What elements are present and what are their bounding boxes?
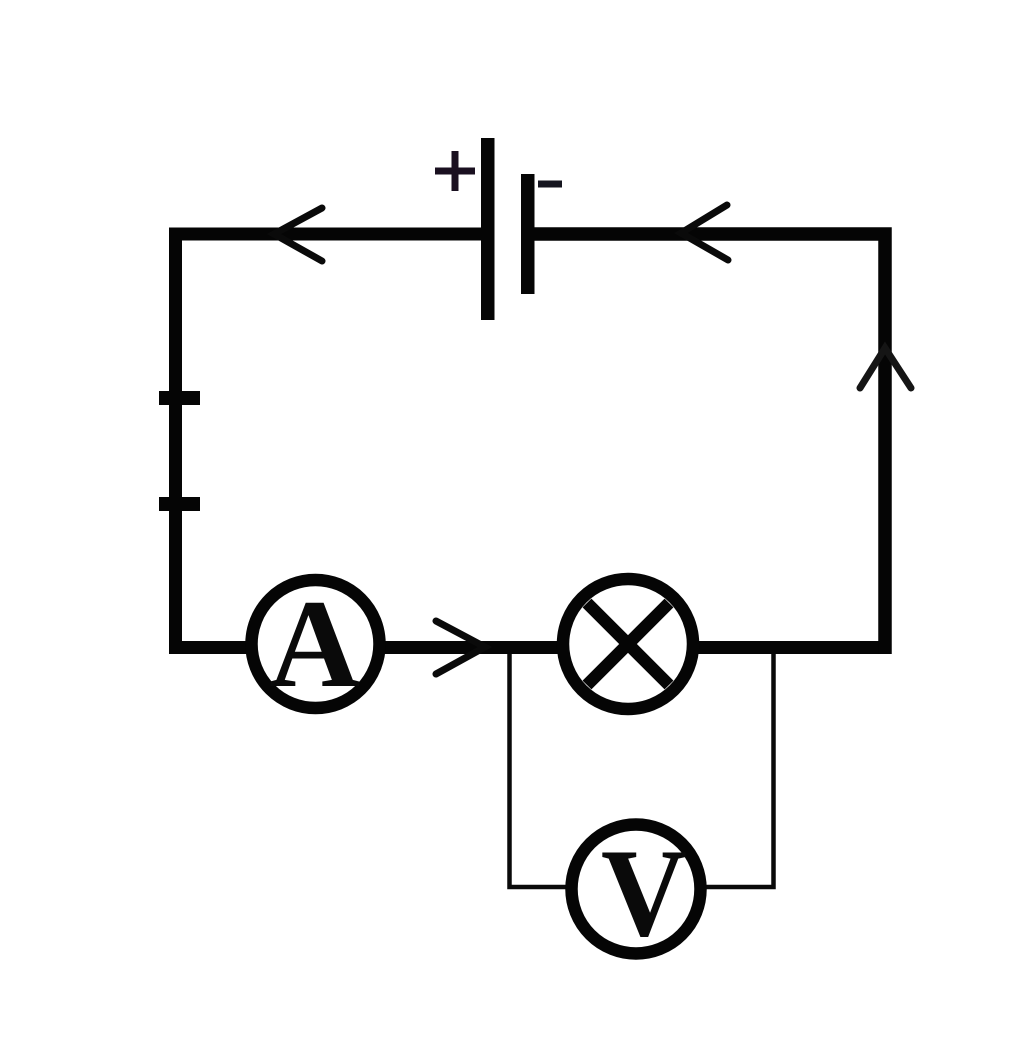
- svg-text:V: V: [601, 824, 687, 963]
- svg-text:A: A: [269, 575, 360, 714]
